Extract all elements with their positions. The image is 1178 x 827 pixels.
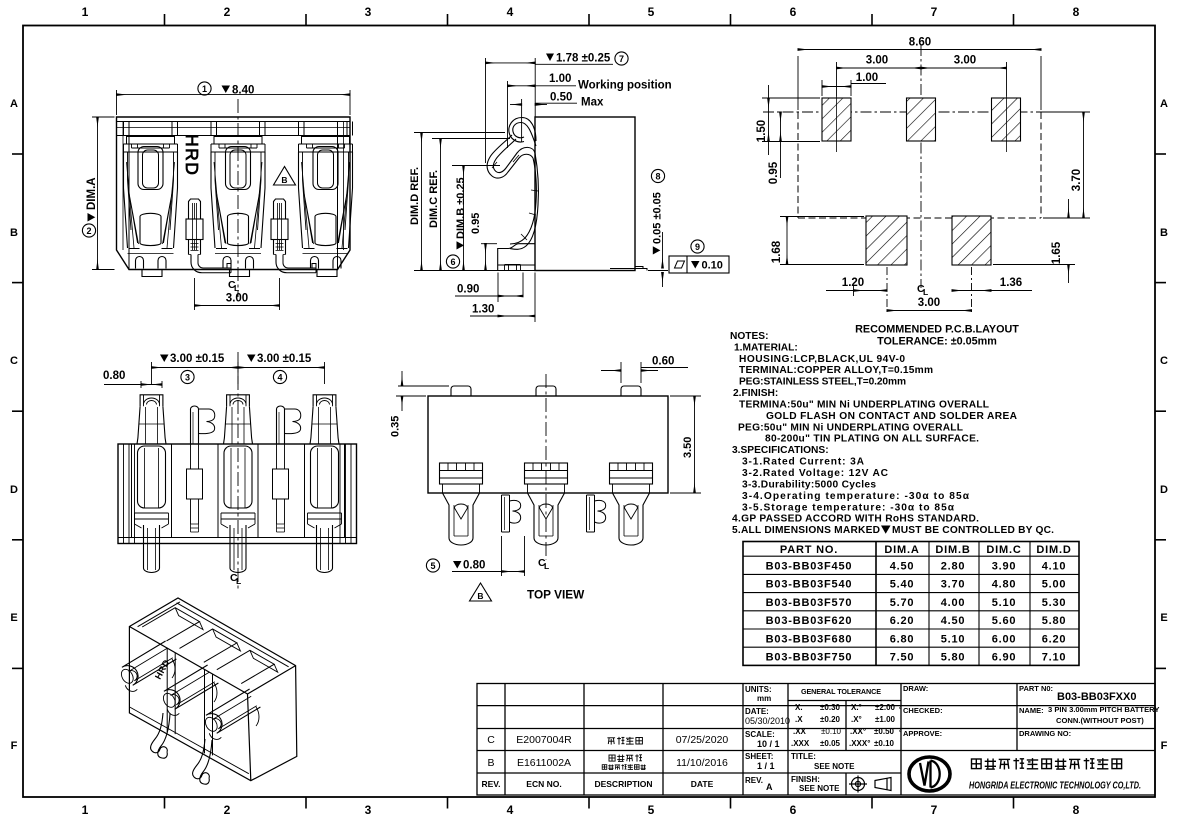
svg-text:3 PIN 3.00mm PITCH BATTERY: 3 PIN 3.00mm PITCH BATTERY bbox=[1048, 705, 1159, 714]
svg-text:0.95: 0.95 bbox=[768, 161, 780, 184]
svg-text:3-3.Durability:5000 Cycles: 3-3.Durability:5000 Cycles bbox=[742, 479, 876, 490]
svg-text:5.60: 5.60 bbox=[992, 615, 1017, 627]
svg-text:7: 7 bbox=[931, 803, 938, 817]
front contact 2 bbox=[211, 122, 265, 136]
svg-text:5.30: 5.30 bbox=[1042, 597, 1067, 609]
side dim 0.95 bbox=[481, 244, 497, 271]
svg-text:3.70: 3.70 bbox=[941, 579, 966, 591]
svg-text:CHECKED:: CHECKED: bbox=[903, 706, 943, 715]
svg-text:1.00: 1.00 bbox=[549, 73, 571, 85]
front dim 8.40 bbox=[117, 90, 351, 115]
svg-text:D: D bbox=[10, 484, 18, 496]
svg-text:PART N0:: PART N0: bbox=[1019, 684, 1053, 693]
svg-text:SCALE:: SCALE: bbox=[745, 730, 775, 739]
3d top face slots bbox=[142, 608, 199, 641]
svg-text:3-4.Operating temperature: -30: 3-4.Operating temperature: -30α to 85α bbox=[742, 491, 970, 502]
back balloon 3 bbox=[181, 370, 194, 383]
svg-text:TERMINAL:COPPER ALLOY,T=0.15mm: TERMINAL:COPPER ALLOY,T=0.15mm bbox=[739, 365, 933, 376]
svg-text:3.70: 3.70 bbox=[1071, 169, 1083, 191]
back balloon 4 bbox=[273, 370, 286, 383]
top view bump 2 bbox=[536, 386, 556, 396]
svg-text:L: L bbox=[236, 576, 241, 586]
svg-text:1.MATERIAL:: 1.MATERIAL: bbox=[734, 342, 798, 353]
side dim DIM.D REF bbox=[414, 133, 533, 271]
svg-text:B: B bbox=[281, 175, 287, 185]
svg-text:DATE:: DATE: bbox=[745, 707, 769, 716]
front contact 1 bbox=[124, 122, 178, 136]
front dim 3.00 bbox=[195, 278, 280, 310]
svg-text:B: B bbox=[1160, 227, 1168, 239]
front view bbox=[117, 117, 353, 277]
svg-text:6: 6 bbox=[790, 5, 797, 19]
svg-text:REV.: REV. bbox=[481, 779, 500, 789]
spring contact outer bbox=[509, 118, 536, 142]
side dim 1.78 bbox=[486, 58, 614, 163]
svg-text:0.05 ±0.05: 0.05 ±0.05 bbox=[652, 192, 664, 244]
svg-text:0.50: 0.50 bbox=[550, 92, 572, 104]
svg-text:.XXX°: .XXX° bbox=[849, 739, 870, 748]
flatness feature control frame bbox=[669, 256, 729, 273]
frame column numbers top bbox=[82, 5, 1080, 19]
svg-text:DIM.B ±0.25: DIM.B ±0.25 bbox=[455, 177, 467, 239]
front peg 1 bbox=[189, 199, 201, 255]
draw / checked / approve labels bbox=[903, 684, 943, 738]
svg-text:0.35: 0.35 bbox=[390, 416, 402, 437]
svg-text:B: B bbox=[477, 591, 483, 601]
svg-text:NOTES:: NOTES: bbox=[730, 331, 769, 342]
top view peg 1 bbox=[502, 495, 510, 532]
svg-text:±1.00: ±1.00 bbox=[875, 715, 896, 724]
back peg 2 bbox=[277, 406, 285, 444]
svg-text:2: 2 bbox=[224, 803, 231, 817]
svg-text:DIM.A: DIM.A bbox=[884, 544, 919, 556]
svg-text:CONN.(WITHOUT POST): CONN.(WITHOUT POST) bbox=[1056, 716, 1144, 725]
svg-text:3.00: 3.00 bbox=[954, 55, 976, 67]
svg-text:E1611002A: E1611002A bbox=[517, 757, 571, 769]
svg-text:PART NO.: PART NO. bbox=[780, 544, 838, 556]
3d body outline bbox=[129, 598, 296, 781]
svg-text:11/10/2016: 11/10/2016 bbox=[676, 757, 728, 769]
back contact 2 bbox=[227, 395, 250, 407]
svg-text:0.80: 0.80 bbox=[463, 560, 485, 572]
svg-text:1.78 ±0.25: 1.78 ±0.25 bbox=[556, 53, 611, 65]
front balloon 2 bbox=[82, 224, 95, 237]
svg-text:4.GP PASSED ACCORD WITH RoHS S: 4.GP PASSED ACCORD WITH RoHS STANDARD. bbox=[732, 514, 979, 525]
top view peg 2 bbox=[587, 495, 595, 532]
svg-text:B03-BB03F750: B03-BB03F750 bbox=[766, 652, 853, 664]
svg-text:DIM.D REF.: DIM.D REF. bbox=[409, 167, 421, 225]
svg-text:DIM.C REF.: DIM.C REF. bbox=[428, 170, 440, 228]
svg-text:TERMINA:50u" MIN Ni UNDERPLATI: TERMINA:50u" MIN Ni UNDERPLATING OVERALL bbox=[739, 400, 989, 411]
svg-text:5.40: 5.40 bbox=[890, 579, 915, 591]
side view bbox=[487, 117, 647, 271]
svg-text:2: 2 bbox=[86, 226, 91, 236]
side balloon 6 bbox=[446, 255, 459, 268]
dim 1.68 bbox=[780, 217, 864, 265]
svg-text:80-200u" TIN PLATING ON ALL SU: 80-200u" TIN PLATING ON ALL SURFACE. bbox=[765, 434, 979, 445]
side balloon 7 bbox=[615, 52, 628, 65]
dimension table text bbox=[766, 544, 1072, 664]
svg-text:HRD: HRD bbox=[153, 658, 172, 681]
svg-text:DIM.B: DIM.B bbox=[935, 544, 970, 556]
svg-text:3-1.Rated Current: 3A: 3-1.Rated Current: 3A bbox=[742, 457, 865, 468]
svg-text:7: 7 bbox=[619, 54, 624, 64]
side view body bbox=[535, 117, 635, 271]
svg-text:.X: .X bbox=[795, 715, 803, 724]
svg-text:APPROVE:: APPROVE: bbox=[903, 729, 942, 738]
svg-text:0.60: 0.60 bbox=[652, 356, 674, 368]
svg-text:5.10: 5.10 bbox=[992, 597, 1017, 609]
top dim 0.60 bbox=[601, 362, 688, 383]
svg-text:5: 5 bbox=[648, 5, 655, 19]
general tolerance box bbox=[791, 687, 902, 748]
svg-text:ECN NO.: ECN NO. bbox=[526, 779, 561, 789]
third angle projection symbol bbox=[849, 776, 891, 793]
svg-text:7.10: 7.10 bbox=[1042, 652, 1067, 664]
svg-text:B03-BB03FXX0: B03-BB03FXX0 bbox=[1057, 691, 1136, 703]
dim 8.60 bbox=[798, 50, 1041, 111]
side view foot bbox=[498, 244, 535, 271]
svg-text:5: 5 bbox=[648, 803, 655, 817]
svg-text:DRAWING NO:: DRAWING NO: bbox=[1019, 729, 1071, 738]
svg-text:7: 7 bbox=[931, 5, 938, 19]
svg-text:.XXX: .XXX bbox=[791, 739, 810, 748]
svg-text:8.60: 8.60 bbox=[909, 37, 931, 49]
svg-text:0.90: 0.90 bbox=[457, 284, 479, 296]
svg-text:TOP VIEW: TOP VIEW bbox=[527, 588, 585, 602]
back contact 3 bbox=[313, 395, 336, 407]
svg-text:C: C bbox=[10, 355, 18, 367]
svg-text:A: A bbox=[766, 782, 773, 792]
side dim DIM.B bbox=[452, 166, 500, 271]
svg-text:Working position: Working position bbox=[578, 80, 672, 92]
svg-text:05/30/2010: 05/30/2010 bbox=[745, 716, 790, 726]
svg-text:B03-BB03F450: B03-BB03F450 bbox=[766, 561, 853, 573]
part no / name / drawing no bbox=[1019, 684, 1159, 738]
revision row C bbox=[487, 734, 728, 770]
svg-text:DIM.D: DIM.D bbox=[1036, 544, 1071, 556]
svg-text:F: F bbox=[11, 740, 18, 752]
top view centerline bbox=[545, 374, 547, 560]
pad top-middle bbox=[907, 98, 936, 141]
svg-text:SEE NOTE: SEE NOTE bbox=[799, 784, 840, 793]
back view bbox=[103, 352, 357, 590]
back dim 3.00 pair bbox=[152, 362, 325, 384]
top balloon 5 bbox=[426, 559, 439, 572]
svg-text:DIM.A: DIM.A bbox=[86, 177, 98, 210]
svg-text:L: L bbox=[544, 561, 549, 571]
top dim 3.50 bbox=[670, 396, 701, 493]
pad top-right bbox=[992, 98, 1021, 141]
back dim 0.80 bbox=[104, 381, 162, 388]
svg-text:4.10: 4.10 bbox=[1042, 561, 1067, 573]
spring arm to U-bend bbox=[487, 135, 533, 178]
svg-text:6: 6 bbox=[790, 803, 797, 817]
side balloon 8 bbox=[651, 169, 664, 182]
frame column numbers bottom bbox=[82, 803, 1080, 817]
svg-text:5.10: 5.10 bbox=[941, 633, 966, 645]
3d front face dividers bbox=[167, 648, 175, 734]
svg-text:DIM.C: DIM.C bbox=[986, 544, 1021, 556]
side dim 0.50 max bbox=[510, 99, 577, 142]
dim 1.65 bbox=[993, 199, 1075, 283]
front balloon 1 bbox=[198, 82, 211, 95]
3d contact 3 bbox=[206, 689, 261, 733]
svg-text:B03-BB03F570: B03-BB03F570 bbox=[766, 597, 853, 609]
svg-text:5.00: 5.00 bbox=[1042, 579, 1067, 591]
pcb housing dashed outline bbox=[798, 112, 1041, 218]
svg-text:07/25/2020: 07/25/2020 bbox=[676, 734, 729, 746]
top view body outline bbox=[428, 396, 668, 493]
dim 0.95 bbox=[780, 112, 782, 178]
svg-text:1: 1 bbox=[82, 803, 89, 817]
svg-text:UNITS:: UNITS: bbox=[745, 685, 772, 694]
svg-text:8: 8 bbox=[1073, 803, 1080, 817]
svg-text:L: L bbox=[234, 283, 239, 293]
svg-text:mm: mm bbox=[757, 694, 771, 703]
svg-text:3.00: 3.00 bbox=[918, 297, 940, 309]
svg-text:5.70: 5.70 bbox=[890, 597, 915, 609]
side view right tab bbox=[610, 267, 647, 271]
svg-text:8.40: 8.40 bbox=[232, 85, 254, 97]
svg-text:9: 9 bbox=[695, 242, 700, 252]
svg-text:4.00: 4.00 bbox=[941, 597, 966, 609]
svg-text:B03-BB03F680: B03-BB03F680 bbox=[766, 633, 853, 645]
pcb layout view bbox=[756, 37, 1090, 316]
svg-text:E: E bbox=[1160, 612, 1167, 624]
front view centerline bbox=[237, 99, 239, 297]
svg-text:1.50: 1.50 bbox=[756, 120, 768, 142]
svg-text:0.10: 0.10 bbox=[702, 260, 723, 272]
svg-text:X.: X. bbox=[795, 703, 803, 712]
frame row letters right bbox=[1160, 98, 1168, 752]
3d front bottom rim bbox=[129, 707, 248, 774]
svg-text:5: 5 bbox=[430, 561, 435, 571]
svg-text:3.00 ±0.15: 3.00 ±0.15 bbox=[170, 353, 225, 365]
svg-text:8: 8 bbox=[1073, 5, 1080, 19]
top view bump 1 bbox=[451, 386, 471, 396]
svg-text:±2.00: ±2.00 bbox=[875, 703, 896, 712]
svg-text:PEG:STAINLESS STEEL,T=0.20mm: PEG:STAINLESS STEEL,T=0.20mm bbox=[739, 377, 906, 388]
svg-text:TITLE:: TITLE: bbox=[791, 752, 816, 761]
svg-text:7.50: 7.50 bbox=[890, 652, 915, 664]
units / date / scale / sheet / rev cells bbox=[745, 685, 790, 792]
svg-text:6.20: 6.20 bbox=[890, 615, 915, 627]
svg-text:1.65: 1.65 bbox=[1051, 241, 1063, 264]
svg-text:3.SPECIFICATIONS:: 3.SPECIFICATIONS: bbox=[732, 445, 829, 456]
pcb horizontal centerline bbox=[763, 111, 1050, 113]
svg-text:1 / 1: 1 / 1 bbox=[757, 761, 775, 771]
3d contact 2 bbox=[164, 665, 219, 709]
svg-text:6.80: 6.80 bbox=[890, 633, 915, 645]
svg-text:PEG:50u" MIN Ni UNDERPLATING O: PEG:50u" MIN Ni UNDERPLATING OVERALL bbox=[738, 422, 963, 433]
svg-text:°: ° bbox=[899, 729, 902, 737]
top view contact 2 bbox=[525, 463, 568, 484]
svg-text:6.20: 6.20 bbox=[1042, 633, 1067, 645]
svg-text:3.00 ±0.15: 3.00 ±0.15 bbox=[257, 353, 312, 365]
title / finish cells bbox=[791, 752, 855, 793]
back centerline bbox=[237, 352, 239, 590]
svg-text:±0.50: ±0.50 bbox=[874, 727, 895, 736]
svg-text:5.80: 5.80 bbox=[941, 652, 966, 664]
spring wire segment ticks bbox=[492, 155, 538, 240]
svg-text:3.90: 3.90 bbox=[992, 561, 1017, 573]
svg-text:3.00: 3.00 bbox=[226, 293, 248, 305]
side dim 1.00 working position bbox=[508, 81, 577, 148]
svg-text:SHEET:: SHEET: bbox=[745, 752, 773, 761]
svg-text:X.°: X.° bbox=[851, 703, 862, 712]
svg-text:A: A bbox=[10, 98, 18, 110]
svg-text:B03-BB03F620: B03-BB03F620 bbox=[766, 615, 853, 627]
company chinese name bbox=[972, 758, 1122, 769]
dim 3.00 top-left bbox=[837, 62, 1007, 152]
svg-text:B: B bbox=[487, 757, 494, 769]
svg-text:3.50: 3.50 bbox=[682, 437, 694, 458]
dim 3.70 bbox=[1043, 112, 1090, 218]
svg-text:0.80: 0.80 bbox=[103, 370, 125, 382]
svg-text:1: 1 bbox=[202, 84, 207, 94]
front peg 2 bbox=[274, 199, 286, 255]
svg-text:8: 8 bbox=[655, 172, 660, 182]
3d peg leg 1 bbox=[151, 713, 170, 758]
svg-text:Max: Max bbox=[581, 97, 604, 109]
svg-text:HOUSING:LCP,BLACK,UL 94V-0: HOUSING:LCP,BLACK,UL 94V-0 bbox=[739, 354, 905, 365]
svg-text:5.ALL DIMENSIONS MARKED: 5.ALL DIMENSIONS MARKED bbox=[732, 525, 880, 536]
pcb layout caption bbox=[855, 324, 1019, 348]
top dim 0.35 bbox=[396, 371, 449, 411]
svg-text:.X°: .X° bbox=[851, 715, 862, 724]
svg-text:F: F bbox=[1161, 740, 1168, 752]
svg-text:3: 3 bbox=[185, 373, 190, 383]
svg-text:HONGRIDA ELECTRONIC TECHNOLOGY: HONGRIDA ELECTRONIC TECHNOLOGY CO,LTD. bbox=[969, 781, 1141, 792]
svg-text:1.00: 1.00 bbox=[856, 72, 878, 84]
svg-text:2.80: 2.80 bbox=[941, 561, 966, 573]
pad top-left bbox=[822, 98, 851, 141]
dim 1.00 bbox=[822, 80, 886, 96]
back contact 1 bbox=[140, 395, 163, 407]
svg-text:DATE: DATE bbox=[691, 779, 714, 789]
side balloon 9 bbox=[691, 240, 704, 253]
dim 1.20 bbox=[826, 285, 887, 296]
svg-text:.XX°: .XX° bbox=[850, 727, 866, 736]
notes text bbox=[730, 331, 1054, 536]
side dim 0.90 bbox=[455, 273, 523, 303]
svg-text:B: B bbox=[10, 227, 18, 239]
dimension table grid bbox=[743, 542, 1079, 666]
svg-text:TOLERANCE: ±0.05mm: TOLERANCE: ±0.05mm bbox=[877, 336, 997, 348]
svg-text:1.36: 1.36 bbox=[1000, 277, 1022, 289]
svg-text:6.90: 6.90 bbox=[992, 652, 1017, 664]
svg-text:1.68: 1.68 bbox=[771, 240, 783, 263]
3d contact 1 bbox=[122, 641, 176, 685]
svg-text:1.20: 1.20 bbox=[842, 277, 864, 289]
svg-text:4: 4 bbox=[507, 803, 514, 817]
svg-text:GOLD FLASH ON CONTACT AND SOL: GOLD FLASH ON CONTACT AND SOLDER AREA bbox=[766, 411, 1018, 422]
3d top face left rim bbox=[138, 602, 180, 627]
svg-text:4.50: 4.50 bbox=[890, 561, 915, 573]
frame row letters left bbox=[10, 98, 18, 752]
svg-text:E: E bbox=[10, 612, 17, 624]
svg-text:E2007004R: E2007004R bbox=[516, 734, 572, 746]
svg-text:5.80: 5.80 bbox=[1042, 615, 1067, 627]
note-5 triangle marker bbox=[881, 526, 891, 534]
svg-text:2: 2 bbox=[224, 5, 231, 19]
front triangle B bbox=[274, 167, 296, 186]
3d isometric view bbox=[119, 598, 297, 784]
pcb vertical centerline bbox=[920, 45, 922, 288]
svg-text:FINISH:: FINISH: bbox=[791, 775, 820, 784]
front dim DIM.A bbox=[92, 117, 115, 270]
svg-text:°: ° bbox=[899, 706, 902, 714]
svg-text:3-2.Rated Voltage: 12V AC: 3-2.Rated Voltage: 12V AC bbox=[742, 468, 889, 479]
svg-text:DESCRIPTION: DESCRIPTION bbox=[594, 779, 652, 789]
svg-text:3: 3 bbox=[365, 5, 372, 19]
svg-text:1: 1 bbox=[82, 5, 89, 19]
svg-text:3: 3 bbox=[365, 803, 372, 817]
top view contact 1 bbox=[440, 463, 483, 484]
side dim DIM.C REF bbox=[432, 139, 510, 271]
revision header row bbox=[481, 779, 713, 789]
svg-text:0.95: 0.95 bbox=[470, 213, 482, 234]
front contact 3 bbox=[299, 122, 353, 136]
svg-text:GENERAL TOLERANCE: GENERAL TOLERANCE bbox=[801, 687, 881, 696]
3d top face back rim bbox=[177, 603, 289, 667]
title block grid lines bbox=[477, 684, 1155, 796]
side dim 0.05 bbox=[648, 232, 668, 287]
svg-text:RECOMMENDED P.C.B.LAYOUT: RECOMMENDED P.C.B.LAYOUT bbox=[855, 324, 1019, 336]
svg-text:L: L bbox=[923, 287, 928, 297]
svg-text:C: C bbox=[1160, 355, 1168, 367]
svg-text:MUST BE CONTROLLED BY QC.: MUST BE CONTROLLED BY QC. bbox=[892, 525, 1054, 536]
pad bottom-right bbox=[952, 216, 991, 265]
svg-text:10 / 1: 10 / 1 bbox=[757, 739, 780, 749]
svg-text:±0.10: ±0.10 bbox=[821, 727, 842, 736]
spring lower run bbox=[510, 158, 536, 244]
svg-text:B03-BB03F540: B03-BB03F540 bbox=[766, 579, 853, 591]
top dim 0.80 bbox=[452, 536, 525, 576]
svg-text:SEE NOTE: SEE NOTE bbox=[814, 762, 855, 771]
svg-text:REV.: REV. bbox=[745, 776, 763, 785]
pad bottom-left bbox=[866, 216, 907, 265]
svg-text:3.00: 3.00 bbox=[866, 55, 888, 67]
svg-text:NAME:: NAME: bbox=[1019, 706, 1044, 715]
svg-text:C: C bbox=[487, 734, 495, 746]
dim 1.50 bbox=[762, 85, 820, 155]
svg-text:HRD: HRD bbox=[182, 134, 202, 176]
dim 3.00 bottom bbox=[887, 267, 972, 315]
svg-text:A: A bbox=[1160, 98, 1168, 110]
top triangle B bbox=[470, 583, 492, 601]
top view bump 3 bbox=[621, 386, 641, 396]
svg-text:DRAW:: DRAW: bbox=[903, 684, 928, 693]
svg-text:.XX: .XX bbox=[793, 727, 807, 736]
front view body outline bbox=[117, 117, 351, 270]
svg-text:4.80: 4.80 bbox=[992, 579, 1017, 591]
top view contact 3 bbox=[610, 463, 653, 484]
svg-text:4: 4 bbox=[507, 5, 514, 19]
svg-text:±0.10: ±0.10 bbox=[874, 739, 895, 748]
svg-text:6.00: 6.00 bbox=[992, 633, 1017, 645]
svg-text:2.FINISH:: 2.FINISH: bbox=[733, 388, 778, 399]
back peg 1 bbox=[191, 406, 199, 444]
svg-text:4.50: 4.50 bbox=[941, 615, 966, 627]
company logo bbox=[909, 757, 950, 791]
svg-text:±0.20: ±0.20 bbox=[820, 715, 841, 724]
svg-text:4: 4 bbox=[277, 373, 282, 383]
svg-text:1.30: 1.30 bbox=[472, 304, 494, 316]
side dim 1.30 bbox=[470, 273, 535, 323]
svg-text:6: 6 bbox=[450, 257, 455, 267]
